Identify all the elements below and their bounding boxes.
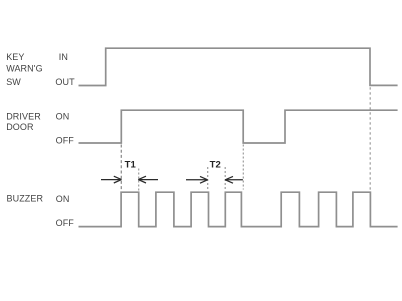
svg-text:DOOR: DOOR xyxy=(6,122,34,132)
wire DRIVER DOOR waveform xyxy=(79,110,398,143)
arrow T1 left xyxy=(101,176,122,183)
svg-text:OUT: OUT xyxy=(55,77,75,87)
dotted guide line at T2 left boundary (x=207.7) xyxy=(207,167,209,191)
svg-text:DRIVER: DRIVER xyxy=(6,111,41,121)
svg-text:WARN'G: WARN'G xyxy=(6,64,42,74)
svg-text:ON: ON xyxy=(56,194,70,204)
dotted guide line at end of first buzzer pulse (x=138.7) xyxy=(138,169,140,192)
label DRIVER DOOR xyxy=(6,111,41,132)
svg-text:IN: IN xyxy=(59,52,68,62)
svg-text:ON: ON xyxy=(56,111,70,121)
svg-text:T2: T2 xyxy=(210,159,221,170)
svg-text:BUZZER: BUZZER xyxy=(7,194,44,204)
wire KEY WARN'G SW waveform xyxy=(79,48,398,85)
wire BUZZER waveform xyxy=(79,192,398,226)
dotted guide line at driver-door closing (x=243.3) xyxy=(242,145,244,190)
arrow T2 left xyxy=(186,176,208,183)
svg-text:KEY: KEY xyxy=(6,52,24,62)
svg-text:OFF: OFF xyxy=(56,218,75,228)
label KEY WARN'G SW xyxy=(6,52,42,87)
dotted guide line at key removal (x=370.2) xyxy=(369,87,371,191)
svg-text:SW: SW xyxy=(6,77,21,87)
dotted guide line at T2 right boundary (x=225.2) xyxy=(224,167,226,191)
dotted guide line at driver-door opening (x=121.3) xyxy=(120,145,122,192)
svg-text:OFF: OFF xyxy=(56,135,75,145)
arrow T1 right xyxy=(138,176,158,183)
arrow T2 right xyxy=(225,176,243,183)
svg-text:T1: T1 xyxy=(125,159,137,170)
